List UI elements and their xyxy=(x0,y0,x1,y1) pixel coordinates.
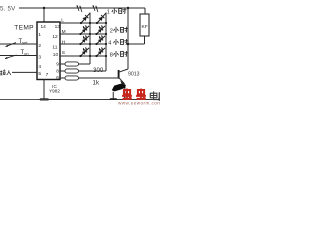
svg-text:12: 12 xyxy=(52,34,58,40)
svg-text:Ton: Ton xyxy=(21,50,29,56)
svg-text:5: 5 xyxy=(38,71,41,77)
svg-text:1: 1 xyxy=(107,10,110,16)
svg-text:6: 6 xyxy=(56,75,59,81)
svg-text:H: H xyxy=(62,39,66,45)
svg-text:www.eeworm.com.: www.eeworm.com. xyxy=(118,100,160,105)
svg-text:1k: 1k xyxy=(93,80,100,87)
svg-text:4: 4 xyxy=(38,64,41,70)
svg-text:300: 300 xyxy=(93,67,104,74)
svg-text:9013: 9013 xyxy=(128,72,140,78)
svg-text:2: 2 xyxy=(38,43,41,49)
svg-text:7: 7 xyxy=(46,72,49,78)
svg-text:L: L xyxy=(61,17,64,23)
svg-text:Tset: Tset xyxy=(19,39,29,45)
svg-text:8: 8 xyxy=(56,68,59,74)
svg-text:TEMP: TEMP xyxy=(14,24,34,31)
svg-text:5. 5V: 5. 5V xyxy=(0,6,16,13)
svg-text:8: 8 xyxy=(110,53,113,59)
svg-text:9: 9 xyxy=(56,62,59,68)
svg-text:S: S xyxy=(62,50,65,56)
svg-text:11: 11 xyxy=(52,45,57,51)
svg-text:14: 14 xyxy=(41,24,47,30)
svg-text:4: 4 xyxy=(108,41,111,47)
svg-text:Y982: Y982 xyxy=(49,89,60,94)
svg-text:3: 3 xyxy=(38,55,41,61)
svg-text:M: M xyxy=(62,29,66,35)
svg-text:KF: KF xyxy=(142,24,148,30)
svg-text:10: 10 xyxy=(53,52,59,58)
svg-text:1: 1 xyxy=(38,32,41,38)
svg-text:2: 2 xyxy=(110,28,113,34)
svg-text:13: 13 xyxy=(55,24,61,30)
